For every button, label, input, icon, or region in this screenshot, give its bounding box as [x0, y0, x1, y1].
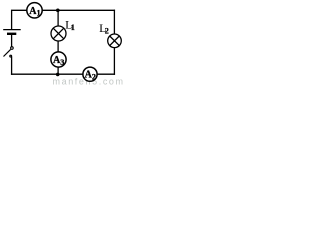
switch S (open) — [4, 47, 14, 57]
node junction top (L1 branch) — [56, 9, 60, 13]
ammeter A1 — [27, 3, 42, 18]
svg-text:L1: L1 — [65, 17, 75, 32]
svg-text:L2: L2 — [99, 21, 109, 36]
ammeter A3 — [51, 52, 66, 67]
wire top from A1 to top-right corner — [42, 9, 114, 11]
wire bottom-left corner up to switch — [11, 57, 13, 74]
wire ammeter A3 down to bottom node — [57, 67, 59, 74]
wire battery bottom to switch top — [11, 35, 13, 47]
battery long plate (+) — [3, 29, 21, 31]
battery short thick plate (-) — [7, 33, 16, 35]
wire from lamp L2 bottom to bottom-right corner — [113, 48, 115, 75]
ammeter A2 — [83, 67, 97, 81]
wire bottom from corner to ammeter A2 — [97, 73, 114, 75]
wire right vertical from corner to lamp L2 — [113, 10, 115, 34]
lamp L2 — [108, 34, 122, 48]
node junction bottom (A3 branch) — [56, 73, 60, 77]
wire bottom from ammeter A2 to bottom-left corner — [12, 73, 83, 75]
wire top-left corner and left vertical to battery — [12, 10, 27, 29]
wire branch L1 from top node down to lamp L1 — [57, 10, 59, 26]
wire lamp L1 to ammeter A3 — [57, 41, 59, 52]
lamp L1 — [51, 26, 66, 41]
